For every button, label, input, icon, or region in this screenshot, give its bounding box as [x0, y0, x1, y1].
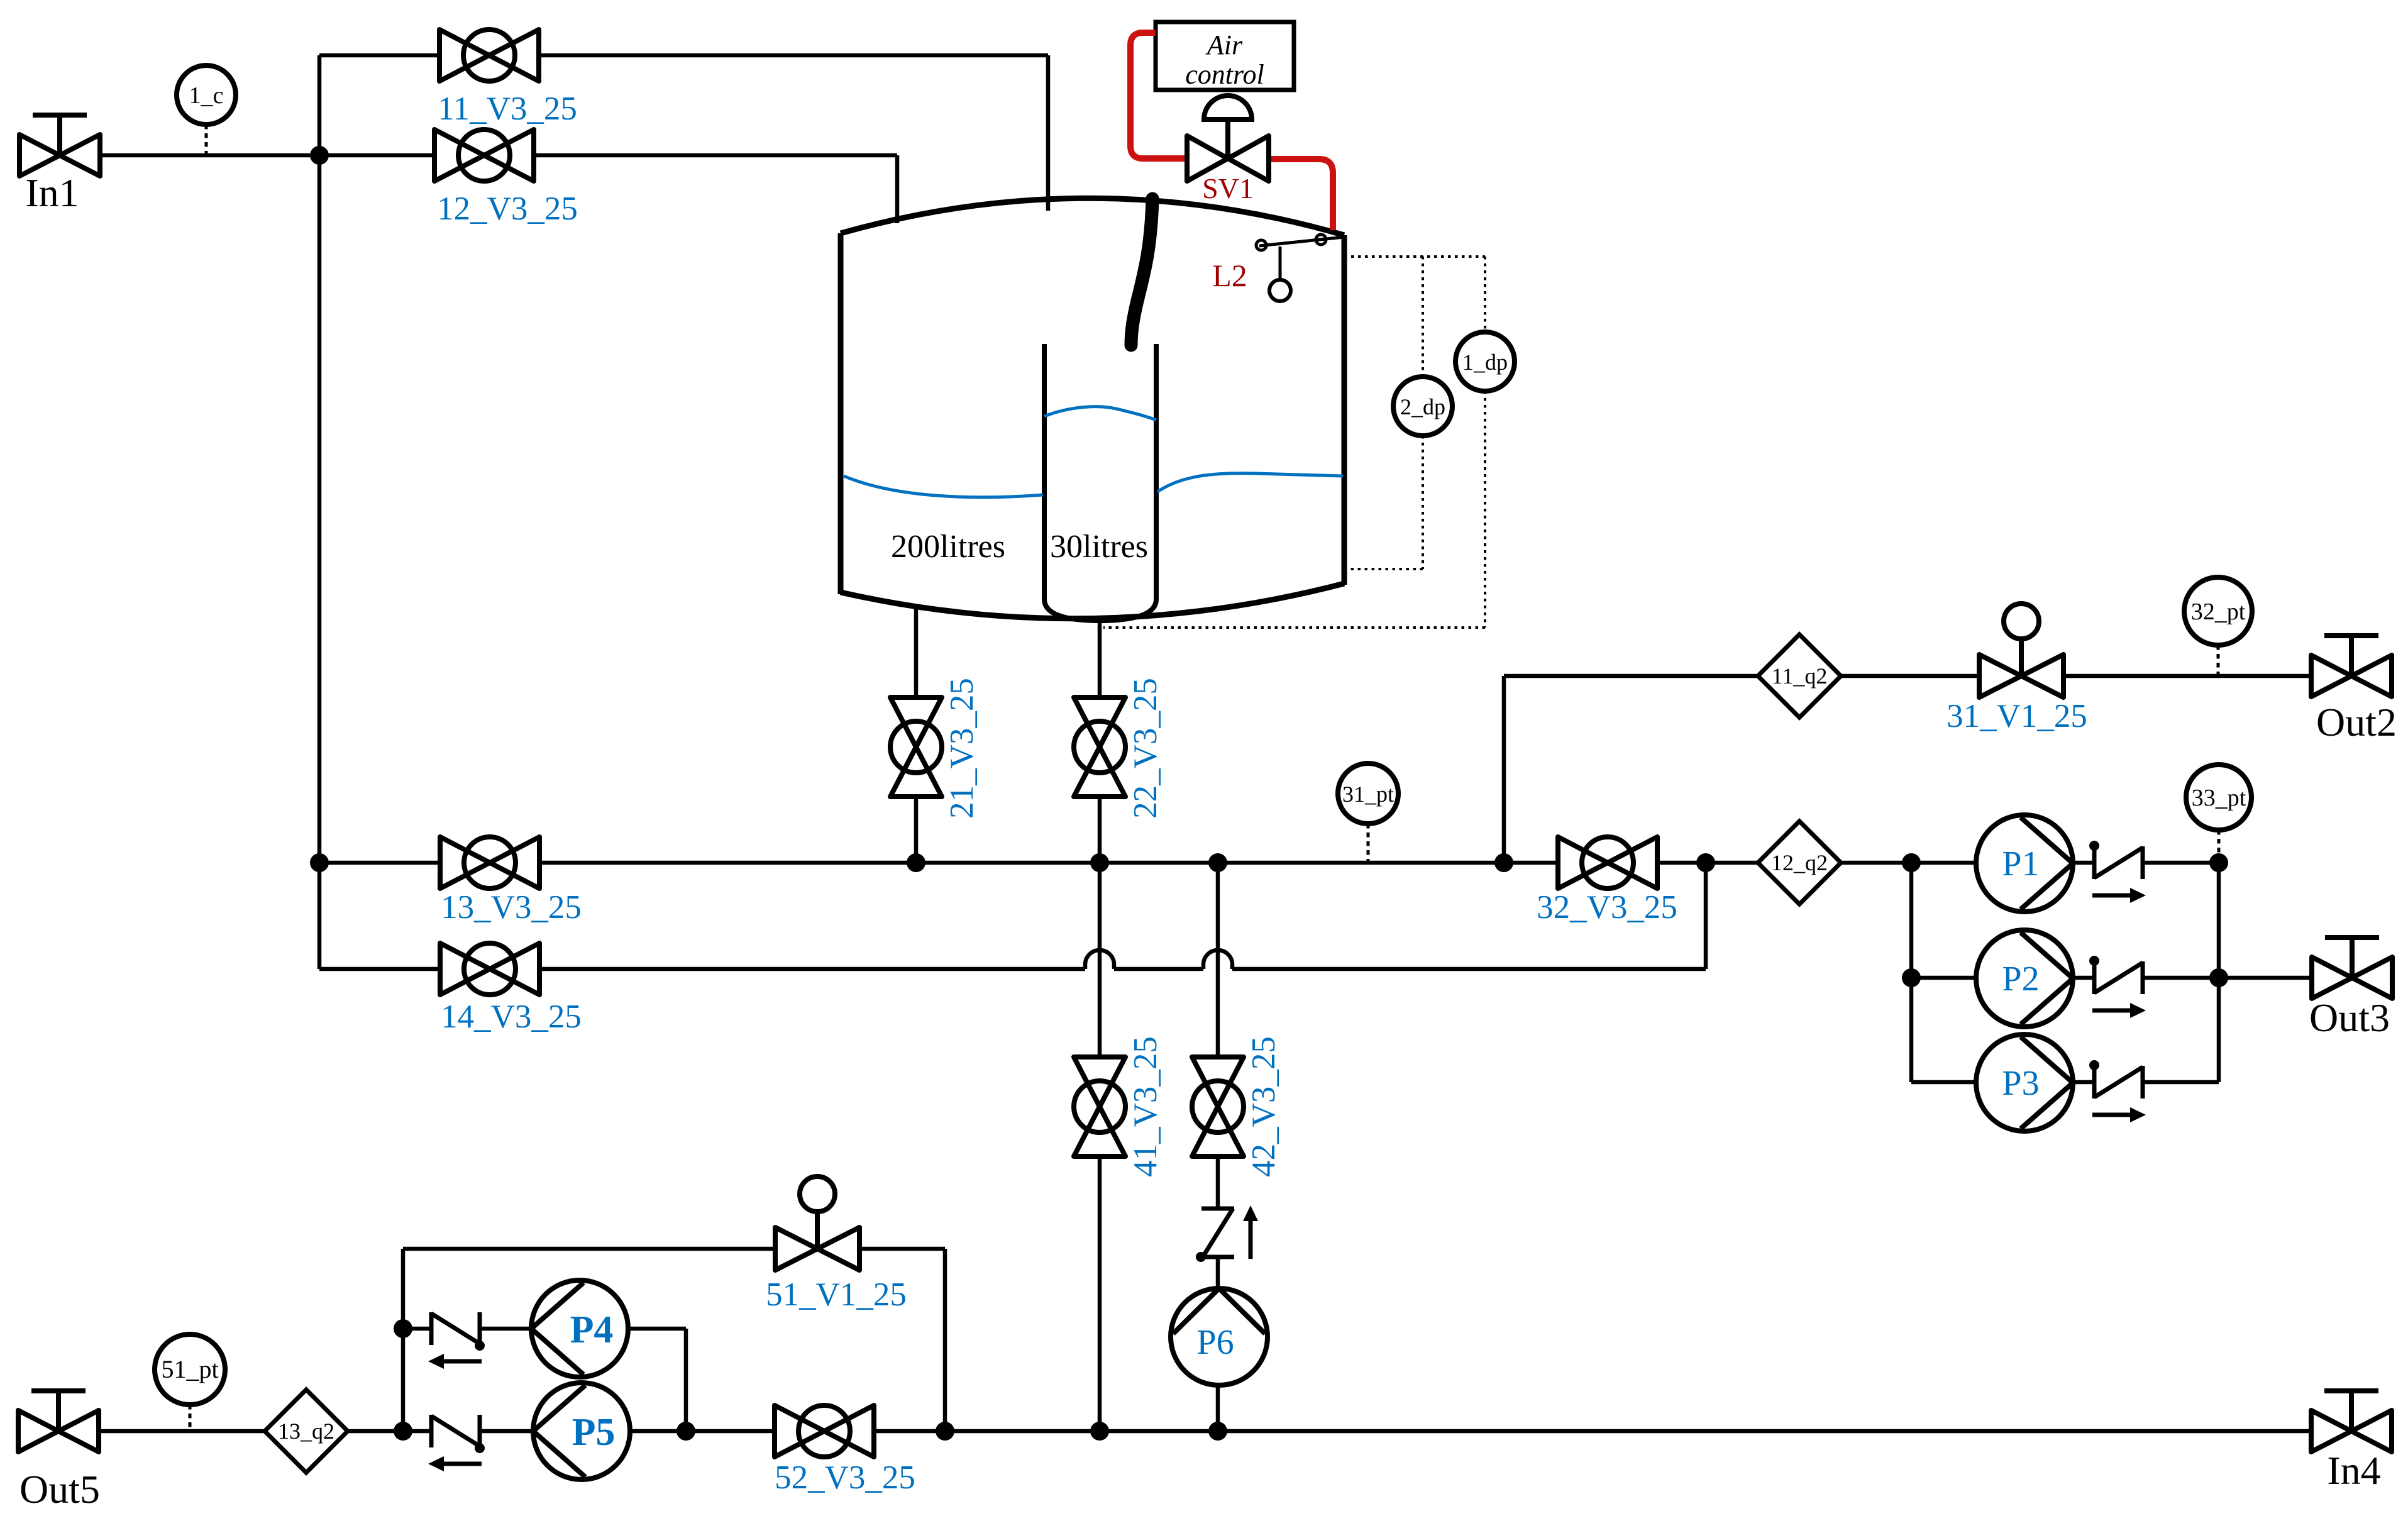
tank left wall — [838, 233, 844, 594]
red pneumatic line right — [1269, 159, 1333, 230]
tank right wall — [1342, 235, 1347, 585]
wire P2 outlet — [2073, 976, 2094, 980]
label 31_V1_25 — [1947, 698, 2087, 734]
svg-text:41_V3_25: 41_V3_25 — [1127, 1036, 1164, 1177]
valve 13_V3_25 — [440, 837, 539, 888]
wire P3 suction — [1911, 1080, 1976, 1085]
valve 41_V3_25 — [1074, 1057, 1125, 1156]
svg-text:SV1: SV1 — [1202, 172, 1254, 204]
label 42_V3_25 — [1245, 1036, 1282, 1177]
svg-text:13_V3_25: 13_V3_25 — [441, 889, 582, 926]
svg-text:1_dp: 1_dp — [1462, 350, 1508, 375]
valve 51_V1_25 — [775, 1176, 859, 1270]
svg-text:1_c: 1_c — [189, 82, 224, 109]
svg-text:Out3: Out3 — [2309, 995, 2390, 1040]
svg-text:22_V3_25: 22_V3_25 — [1127, 678, 1164, 819]
check valve before P5 — [428, 1415, 485, 1471]
svg-text:In1: In1 — [25, 170, 79, 215]
label 14_V3_25 — [441, 999, 582, 1035]
wire P4 branch — [403, 1327, 531, 1331]
label 41_V3_25 — [1127, 1036, 1164, 1177]
valve In1 — [19, 115, 100, 176]
wire P3 outlet — [2073, 1080, 2094, 1085]
water level inner — [1044, 407, 1156, 420]
instrument lead 51_pt — [189, 1405, 192, 1429]
label P5 — [572, 1411, 616, 1454]
wire 12 branch line — [319, 153, 897, 158]
svg-text:14_V3_25: 14_V3_25 — [441, 999, 582, 1035]
wire check to P6 — [1216, 1257, 1220, 1288]
svg-text:42_V3_25: 42_V3_25 — [1245, 1036, 1282, 1177]
instrument lead 33_pt — [2217, 830, 2221, 861]
dotted line 2_dp bottom — [1344, 436, 1423, 569]
junction node 12 at (641,2113) — [394, 1319, 412, 1338]
pump P2 — [1976, 930, 2073, 1027]
wire P6 to bottom header — [1216, 1385, 1220, 1431]
label Out2 — [2316, 700, 2397, 744]
wire tank left outlet lower — [914, 797, 919, 863]
junction node 4 at (1749,1372) — [1090, 853, 1109, 872]
wire P1 check to bus — [2143, 861, 2219, 865]
wire P3 check to bus — [2143, 1080, 2219, 1085]
junction node 9 at (3529,1372) — [2209, 853, 2228, 872]
flow meter 12_q2 — [1758, 821, 1841, 904]
valve 52_V3_25 — [775, 1405, 874, 1457]
pump P5 — [533, 1383, 630, 1480]
svg-text:32_pt: 32_pt — [2191, 599, 2246, 625]
wire 14 riser to header — [1704, 863, 1708, 969]
junction node 5 at (1937,1372) — [1208, 853, 1227, 872]
red pneumatic line left — [1130, 33, 1187, 158]
wire Out2 riser — [1502, 676, 1506, 863]
label 51_V1_25 — [766, 1276, 907, 1313]
svg-text:51_pt: 51_pt — [161, 1355, 218, 1383]
dotted line 2_dp top — [1344, 255, 1485, 258]
wire header to 12_q2 — [1657, 861, 1758, 865]
junction node 17 at (1937,2276) — [1208, 1422, 1227, 1441]
junction node 14 at (1091,2276) — [677, 1422, 695, 1441]
junction node 3 at (1457,1372) — [907, 853, 925, 872]
wire 42 to check — [1216, 1156, 1220, 1209]
svg-text:52_V3_25: 52_V3_25 — [775, 1459, 915, 1496]
label 30litres — [1050, 529, 1148, 565]
wire 11 downpipe into tank roof — [1046, 55, 1051, 211]
junction node 6 at (2392,1372) — [1494, 853, 1513, 872]
svg-text:L2: L2 — [1212, 258, 1247, 293]
tank top head — [841, 198, 1344, 235]
svg-text:200litres: 200litres — [891, 529, 1005, 565]
junction node 1 at (508,247) — [310, 146, 329, 165]
tank bottom head — [841, 584, 1344, 619]
svg-text:12_V3_25: 12_V3_25 — [437, 191, 578, 227]
valve 12_V3_25 — [434, 130, 534, 181]
dotted line 2_dp down — [1422, 257, 1424, 377]
svg-text:Air: Air — [1205, 30, 1243, 60]
pump P4 — [531, 1280, 628, 1377]
instrument 51_pt — [155, 1334, 225, 1405]
junction node 8 at (3040,1372) — [1902, 853, 1921, 872]
junction node 11 at (3529,1555) — [2209, 968, 2228, 987]
wire P1 outlet — [2073, 861, 2094, 865]
svg-text:P3: P3 — [2002, 1064, 2039, 1103]
label P3 — [2002, 1064, 2039, 1103]
wire 12_q2 to P1 — [1841, 861, 1976, 865]
valve In4 — [2311, 1391, 2392, 1452]
pump P3 — [1976, 1034, 2073, 1131]
label 52_V3_25 — [775, 1459, 915, 1496]
label P2 — [2002, 960, 2039, 999]
dip tube — [1131, 199, 1152, 345]
label P6 — [1196, 1323, 1234, 1362]
svg-text:P5: P5 — [572, 1411, 616, 1454]
wire tank left outlet — [914, 606, 919, 697]
instrument 33_pt — [2186, 765, 2251, 830]
wire 41 line — [1098, 863, 1102, 1057]
label L2 — [1212, 258, 1247, 293]
svg-text:P6: P6 — [1196, 1323, 1234, 1362]
air control box — [1156, 22, 1294, 90]
svg-text:2_dp: 2_dp — [1400, 394, 1445, 419]
wire P4 downcomer — [684, 1329, 688, 1431]
pump P6 — [1171, 1288, 1268, 1385]
label P4 — [570, 1309, 614, 1351]
svg-text:21_V3_25: 21_V3_25 — [944, 678, 980, 819]
wire Out2 branch — [1504, 674, 2311, 678]
svg-text:In4: In4 — [2327, 1448, 2380, 1493]
svg-text:11_q2: 11_q2 — [1772, 663, 1828, 689]
svg-text:Out2: Out2 — [2316, 700, 2397, 744]
wire 41 to bottom header — [1098, 1156, 1102, 1431]
wire 51 bypass downcomer — [943, 1249, 947, 1431]
valve SV1 — [1187, 96, 1269, 181]
instrument 32_pt — [2184, 577, 2252, 645]
check valve after P2 — [2089, 956, 2146, 1018]
wire P2 check to bus — [2143, 976, 2219, 980]
valve 21_V3_25 — [890, 697, 942, 797]
svg-text:13_q2: 13_q2 — [278, 1419, 334, 1444]
label 32_V3_25 — [1537, 889, 1677, 926]
wire In1 inlet line — [100, 153, 310, 158]
label 22_V3_25 — [1127, 678, 1164, 819]
svg-text:P2: P2 — [2002, 960, 2039, 999]
pump P1 — [1976, 815, 2073, 912]
inner tube 30litres — [1044, 344, 1156, 621]
svg-text:P4: P4 — [570, 1309, 614, 1351]
svg-text:30litres: 30litres — [1050, 529, 1148, 565]
instrument lead 31_pt — [1367, 824, 1370, 861]
check valve above P6 — [1196, 1205, 1258, 1262]
instrument 2_dp — [1393, 377, 1452, 436]
flow meter 11_q2 — [1758, 634, 1841, 717]
instrument lead 32_pt — [2217, 645, 2220, 674]
svg-text:32_V3_25: 32_V3_25 — [1537, 889, 1677, 926]
label 11_V3_25 — [438, 91, 577, 127]
label 12_V3_25 — [437, 191, 578, 227]
label 21_V3_25 — [944, 678, 980, 819]
wire left riser — [318, 55, 322, 969]
junction node 16 at (1749,2276) — [1090, 1422, 1109, 1441]
svg-text:Out5: Out5 — [19, 1467, 100, 1512]
wire P4 outlet — [628, 1327, 686, 1331]
valve 31_V1_25 — [1979, 604, 2063, 697]
instrument 1_dp — [1455, 332, 1515, 391]
wire pump discharge bus — [2217, 863, 2221, 1082]
wire hop over 41 line — [1085, 950, 1114, 969]
check valve after P3 — [2089, 1060, 2146, 1122]
check valve before P4 — [428, 1312, 485, 1369]
water level outer right — [1157, 473, 1343, 492]
label Air control — [1185, 30, 1264, 90]
wire 42 line — [1216, 863, 1220, 1057]
wire bottom header — [98, 1429, 2311, 1434]
dotted line 1_dp bottom — [1103, 391, 1485, 628]
wire main suction header — [319, 861, 1558, 865]
svg-text:11_V3_25: 11_V3_25 — [438, 91, 577, 127]
label 13_V3_25 — [441, 889, 582, 926]
instrument 31_pt — [1338, 763, 1398, 824]
label In1 — [25, 170, 79, 215]
valve 22_V3_25 — [1074, 697, 1125, 797]
valve Out2 — [2311, 636, 2392, 697]
svg-text:12_q2: 12_q2 — [1771, 850, 1828, 875]
dotted line 1_dp down — [1484, 257, 1486, 332]
wire P2 suction — [1911, 976, 1976, 980]
svg-text:31_V1_25: 31_V1_25 — [1947, 698, 2087, 734]
svg-text:33_pt: 33_pt — [2192, 785, 2246, 811]
wire 14 bypass line — [319, 967, 1706, 971]
junction node 10 at (3040,1555) — [1902, 968, 1921, 987]
valve 11_V3_25 — [439, 30, 539, 81]
valve 14_V3_25 — [440, 943, 539, 995]
label In4 — [2327, 1448, 2380, 1493]
valve Out3 — [2312, 938, 2392, 999]
wire 12 downpipe into tank roof — [895, 155, 900, 223]
wire 11 branch line — [319, 53, 1048, 58]
junction node 7 at (2713,1372) — [1696, 853, 1715, 872]
junction node 15 at (1503,2276) — [936, 1422, 954, 1441]
instrument lead 1_c — [205, 124, 208, 153]
wire 51 bypass line — [403, 1247, 945, 1251]
valve 42_V3_25 — [1192, 1057, 1244, 1156]
junction node 2 at (508,1372) — [310, 853, 329, 872]
junction node 13 at (641,2276) — [394, 1422, 412, 1441]
wire Out3 line — [2219, 976, 2312, 980]
wire inner tube drain — [1098, 618, 1102, 697]
wire hop over 42 line — [1203, 950, 1232, 969]
wire pump suction bus — [1909, 863, 1914, 1082]
valve 32_V3_25 — [1558, 837, 1657, 888]
label SV1 — [1202, 172, 1254, 204]
label Out5 — [19, 1467, 100, 1512]
check valve after P1 — [2089, 841, 2146, 903]
valve Out5 — [18, 1391, 99, 1452]
label Out3 — [2309, 995, 2390, 1040]
wire Out5 loop riser — [401, 1249, 406, 1431]
instrument 1_c — [177, 65, 236, 124]
svg-text:31_pt: 31_pt — [1342, 782, 1394, 807]
water level outer left — [844, 476, 1043, 497]
svg-text:P1: P1 — [2002, 844, 2039, 883]
svg-text:control: control — [1185, 59, 1264, 90]
level switch L2 — [1256, 235, 1344, 301]
label P1 — [2002, 844, 2039, 883]
label 200litres — [891, 529, 1005, 565]
svg-text:51_V1_25: 51_V1_25 — [766, 1276, 907, 1313]
wire inner drain lower — [1098, 797, 1102, 863]
flow meter 13_q2 — [265, 1390, 348, 1473]
